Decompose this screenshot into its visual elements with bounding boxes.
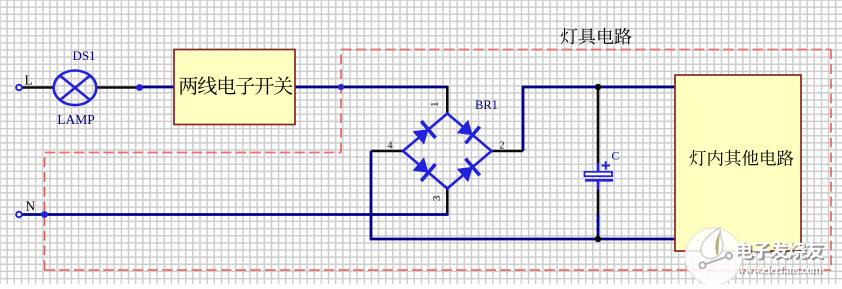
- diode D bl: [413, 157, 429, 173]
- diode D tl: [413, 129, 429, 145]
- cap bottom lead: [597, 190, 600, 217]
- capacitor C: [597, 163, 600, 172]
- wire lamp to junction: [96, 86, 140, 89]
- bridge pin2 lead: [490, 150, 523, 153]
- svg-text:3: 3: [431, 195, 443, 201]
- wire pin4 down to bottom rail: [371, 151, 675, 239]
- cap wire to rail: [597, 215, 600, 239]
- N wire: [21, 213, 449, 216]
- cap top lead: [597, 87, 600, 164]
- wire node to bridge pin1 drop: [341, 86, 447, 89]
- svg-text:N: N: [26, 199, 36, 214]
- junction dot cap bottom: [595, 236, 601, 242]
- terminal N: [16, 212, 22, 218]
- watermark text: [736, 241, 825, 261]
- junction dot lamp-switch: [136, 84, 143, 91]
- lamp DS1: [54, 71, 97, 106]
- watermark logo: [685, 228, 742, 286]
- bridge BR1 diamond: [403, 114, 492, 189]
- wire L terminal to lamp: [21, 86, 54, 89]
- junction dot N: [41, 211, 48, 218]
- terminal L: [16, 85, 22, 91]
- wire junction to switch box: [140, 86, 176, 89]
- svg-text:L: L: [25, 73, 33, 88]
- dashed region 灯具电路: [45, 50, 832, 271]
- bridge pin1 lead: [446, 86, 449, 114]
- bridge pin3 lead: [446, 188, 449, 216]
- label 灯具电路: [561, 28, 632, 45]
- svg-text:BR1: BR1: [475, 98, 498, 112]
- svg-text:4: 4: [388, 141, 393, 152]
- junction dot cap top: [595, 84, 601, 90]
- junction node top: [338, 84, 344, 90]
- svg-text:DS1: DS1: [72, 48, 95, 63]
- switch box 两线电子开关: [174, 50, 295, 125]
- svg-text:2: 2: [500, 141, 505, 152]
- diode D tr: [457, 120, 473, 136]
- svg-text:C: C: [612, 151, 620, 163]
- wire switch box to node: [295, 86, 341, 89]
- right box 灯内其他电路: [675, 75, 801, 251]
- svg-text:1: 1: [429, 102, 441, 108]
- watermark url: [737, 262, 824, 277]
- wire pin2 riser: [523, 87, 675, 151]
- cap plus: [602, 165, 611, 167]
- bridge pin4 lead: [371, 150, 404, 153]
- svg-text:LAMP: LAMP: [57, 112, 95, 127]
- svg-text:www.elecfans.com: www.elecfans.com: [737, 262, 822, 276]
- diode D br: [457, 167, 473, 183]
